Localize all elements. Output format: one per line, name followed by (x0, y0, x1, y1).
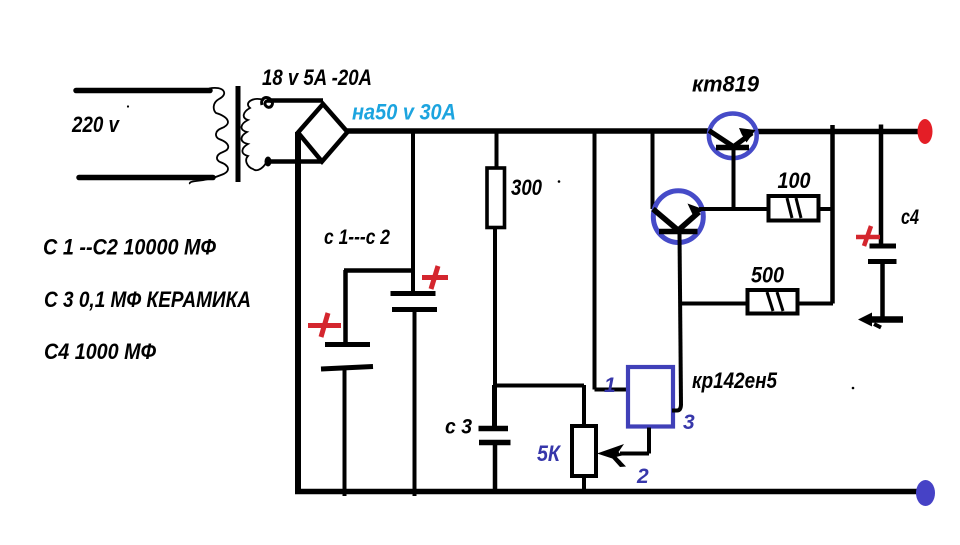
wire regulator pin1 horizontal (595, 388, 628, 392)
wire Q1 base vertical (732, 150, 736, 209)
wire c2 bottom lead (413, 310, 417, 496)
transformer secondary bottom knot (265, 157, 272, 167)
wire Q2 emitter to R100 (699, 207, 769, 211)
resistor R500 (748, 290, 798, 314)
red plus C1 (308, 313, 341, 337)
ground symbol (858, 313, 903, 328)
svg-text:C4 1000 МФ: C4 1000 МФ (44, 339, 157, 364)
wire regulator pin3 hook (672, 404, 681, 411)
svg-text:5К: 5К (537, 441, 561, 466)
transformer T1 primary bottom lead (79, 175, 213, 181)
wire R500 to right vertical (798, 302, 834, 306)
wire c3 top lead (492, 385, 497, 428)
transistor Q2 emitter arrowhead (688, 204, 705, 217)
potentiometer 5K (572, 426, 596, 476)
capacitor C1 bottom plate (321, 367, 373, 370)
svg-text:c 3: c 3 (445, 416, 472, 439)
transistor Q2 collector diagonal (653, 209, 679, 231)
transistor Q1 base bar (716, 145, 749, 151)
transistor Q2 base bar (659, 229, 698, 235)
regulator U1 кр142ен5 (628, 367, 673, 427)
stray ink dot near 300 (558, 180, 561, 183)
wire c4 top lead (879, 125, 884, 246)
transformer T1 secondary winding (241, 99, 266, 170)
capacitor C2 top plate (391, 291, 436, 296)
wire regulator pin1 vertical (593, 131, 597, 390)
bridge rectifier (298, 104, 348, 162)
transformer T1 core (236, 86, 241, 182)
node output minus terminal (916, 480, 935, 506)
wire bottom bus (295, 489, 917, 495)
capacitor C3 bottom plate (479, 440, 511, 446)
svg-text:1: 1 (604, 374, 616, 397)
wire regulator pin2 horizontal (620, 452, 649, 456)
wire secondary bottom to bridge (267, 159, 323, 164)
wire 300 to pot horizontal (493, 384, 584, 388)
wire 300 bottom lead (493, 228, 497, 386)
svg-text:c4: c4 (901, 206, 919, 229)
resistor R500 hatches (767, 292, 783, 311)
capacitor C4 bottom plate (868, 259, 897, 264)
wire Q2 to R500 (680, 302, 748, 306)
transistor Q1 collector diagonal (709, 131, 734, 148)
svg-text:100: 100 (778, 168, 812, 193)
svg-text:300: 300 (511, 175, 543, 200)
transistor Q2 circle (653, 191, 703, 243)
resistor R100 (769, 196, 819, 221)
capacitor C1 top plate (325, 342, 370, 347)
red plus C2 (422, 266, 448, 289)
svg-text:220 v: 220 v (71, 112, 120, 137)
svg-text:18 v 5A -20A: 18 v 5A -20A (262, 65, 372, 90)
wire pot top lead (582, 385, 586, 426)
wire Q2 collector lead (651, 131, 655, 209)
wire top bus right segment (756, 129, 920, 135)
pot wiper arrow (597, 444, 624, 462)
transistor Q2 emitter diagonal (678, 212, 699, 231)
wire pot bottom lead (582, 476, 586, 492)
red plus C4 (856, 226, 880, 246)
wire 300 top lead (495, 131, 499, 168)
wire c1 branch horizontal (344, 268, 413, 273)
resistor 300 (487, 168, 505, 228)
wire secondary top to bridge (267, 98, 323, 103)
svg-text:3: 3 (683, 411, 695, 434)
wire R100 to right vertical (819, 207, 834, 211)
stray ink dot near кр142ен5 (852, 387, 855, 390)
wire c4 bottom lead (880, 262, 885, 318)
transformer secondary top knot (262, 98, 273, 108)
transistor Q1 circle (709, 114, 757, 159)
wire top bus left segment (346, 128, 708, 134)
wire c1 top lead (343, 270, 348, 344)
capacitor C2 bottom plate (392, 307, 437, 312)
svg-text:c 1---c 2: c 1---c 2 (324, 226, 390, 249)
wire regulator pin2 vertical (647, 428, 651, 454)
svg-text:кр142ен5: кр142ен5 (692, 368, 778, 393)
wire c2 top lead (411, 131, 415, 293)
svg-text:500: 500 (751, 263, 785, 288)
transformer T1 primary winding (190, 88, 228, 184)
wire left vertical bus (295, 132, 301, 491)
svg-text:на50 v 30А: на50 v 30А (352, 100, 456, 125)
svg-text:2: 2 (636, 465, 649, 488)
node output plus terminal (918, 119, 933, 144)
transformer T1 primary top lead (76, 88, 210, 94)
capacitor C4 top plate (870, 244, 897, 249)
resistor R100 hatches (787, 198, 801, 218)
transistor Q1 emitter diagonal (733, 133, 752, 147)
wire c1 bottom lead (343, 368, 347, 496)
svg-text:C 1 --C2 10000 МФ: C 1 --C2 10000 МФ (43, 235, 217, 260)
wire right vertical (830, 125, 835, 304)
capacitor C3 top plate (479, 426, 509, 432)
wire Q2 base vertical (680, 233, 682, 405)
svg-text:кт819: кт819 (692, 72, 760, 97)
stray ink dot above 220v (127, 105, 129, 107)
transistor Q1 emitter arrowhead (739, 128, 756, 143)
wire c3 bottom lead (493, 443, 498, 492)
svg-text:C 3 0,1 МФ КЕРАМИКА: C 3 0,1 МФ КЕРАМИКА (44, 287, 251, 312)
